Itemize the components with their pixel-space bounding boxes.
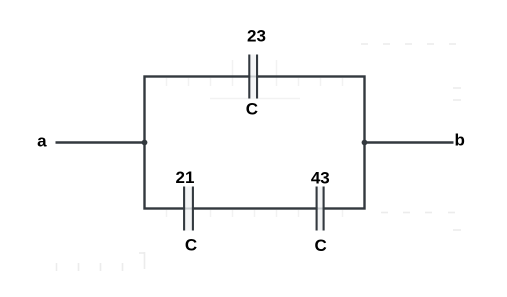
svg-text:21: 21 [176, 168, 195, 187]
svg-text:C: C [246, 100, 258, 119]
svg-text:43: 43 [311, 169, 330, 188]
svg-text:C: C [315, 236, 327, 255]
svg-text:C: C [185, 236, 197, 255]
svg-text:23: 23 [247, 27, 266, 46]
svg-text:b: b [455, 131, 465, 150]
svg-text:a: a [37, 132, 47, 151]
